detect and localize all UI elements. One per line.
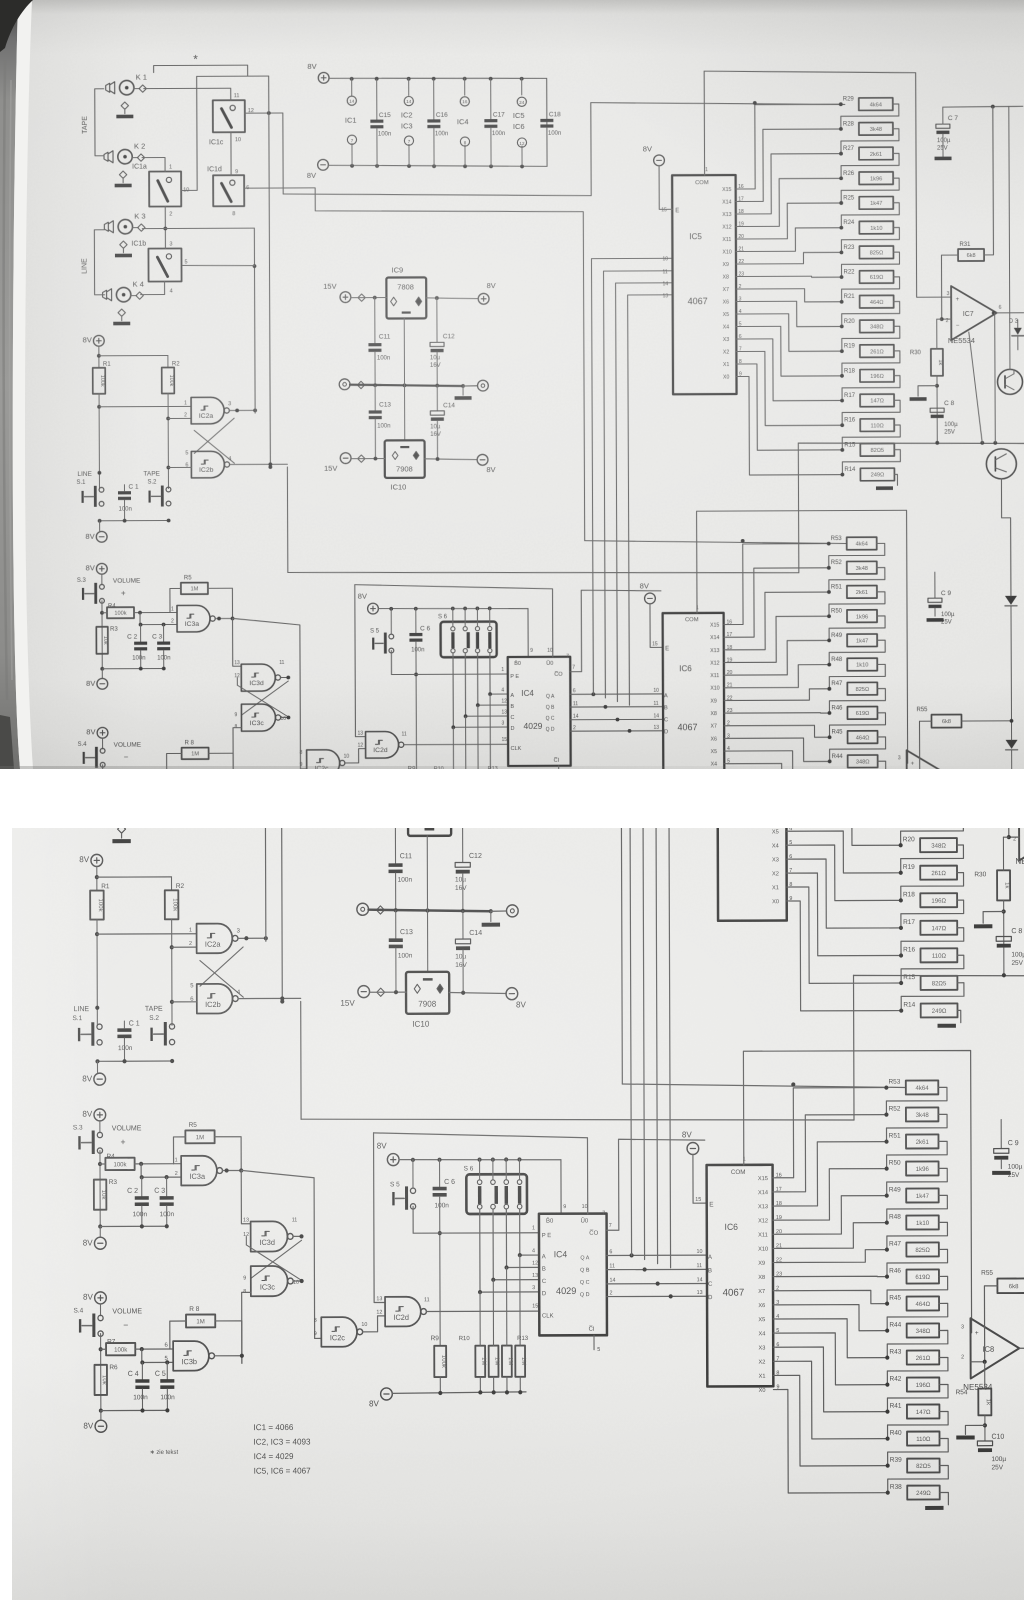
- wire IC5 X10 to ladder row R24: [738, 228, 841, 252]
- capacitor C17: [490, 79, 492, 119]
- wire S6 to IC4 A: [490, 653, 508, 694]
- select bus QD vertical to IC5: [628, 295, 675, 705]
- wire IC5 X6 to ladder row R20: [739, 301, 842, 327]
- capacitor C5: [163, 791, 165, 806]
- counter IC4 4029: [539, 1214, 607, 1336]
- wire IC4 QA to IC6: [570, 693, 663, 695]
- wire R2 down / TAPE node: [171, 919, 173, 1025]
- wire IC5 X12 to ladder row R26: [789, 680, 901, 734]
- wire to IC2a pin2: [172, 946, 197, 948]
- IC4 CI stub: [558, 766, 560, 779]
- capacitor C12: [462, 813, 464, 862]
- wire R55 to diodes: [961, 720, 1011, 722]
- opamp IC8 NE5534: [970, 1318, 1019, 1378]
- select bus QB vertical to IC5: [643, 783, 719, 1260]
- ladder resistor R26 1k96: [898, 678, 902, 682]
- capacitor C2: [140, 625, 142, 642]
- book gutter dark band: [0, 0, 46, 769]
- rail counter block: [378, 608, 528, 609]
- NAND gate IC2c: [307, 750, 340, 777]
- ladder resistor R19 261Ω: [840, 349, 844, 353]
- capacitor C12: [436, 298, 438, 342]
- ground at zero rail: [462, 386, 464, 395]
- capacitor C8: [930, 408, 944, 412]
- ladder resistor R24 1k10: [839, 226, 843, 230]
- wire K4 to IC1b: [142, 794, 168, 809]
- wire IC5 X9 to ladder row R23: [789, 763, 900, 776]
- terminal 8V+ volume down: [95, 1292, 107, 1304]
- wire S.3 down: [101, 601, 103, 669]
- IC supply pin circles 14/7: [370, 568, 372, 587]
- ladder resistor R47 825Ω: [885, 1247, 889, 1251]
- wire S6 to IC4 B: [478, 653, 508, 706]
- ladder resistor R52 3k48: [827, 566, 831, 570]
- wire IC5 X1 to ladder row R15: [789, 887, 901, 984]
- distribution left vertical: [286, 467, 288, 572]
- capacitor C13: [395, 911, 397, 939]
- opamp supply diagonal: [969, 332, 982, 443]
- wire bracket to bus: [258, 564, 281, 566]
- wire IC9 out to 8V+: [451, 813, 507, 814]
- wire IC3c pin8 from IC3b: [233, 728, 242, 792]
- wire IC6 X1 to ladder row R39: [727, 801, 830, 883]
- terminal 8V+ counter block: [368, 603, 379, 614]
- wire IC5 X5 to ladder row R19: [739, 314, 842, 352]
- ladder resistor R25 1k47: [898, 705, 902, 709]
- NAND gate IC3d: [251, 1221, 288, 1251]
- analog switch IC1a: [151, 672, 186, 711]
- capacitor C2: [141, 1177, 143, 1196]
- NAND gate IC2a: [197, 924, 233, 954]
- rail to distribution line: [853, 975, 856, 1120]
- connector K 1: [119, 80, 133, 94]
- FET Q2: [986, 449, 1016, 479]
- wire IC1a pin10 up: [181, 76, 248, 190]
- wire IC4 QB to IC6: [570, 706, 663, 708]
- ladder resistor R23 825Ω: [898, 760, 902, 764]
- wire IC6 X5 to ladder row R43: [727, 751, 830, 786]
- pulldown rail: [392, 1392, 526, 1394]
- terminal 8V+ volume up: [94, 1109, 106, 1121]
- wire R1 down / LINE node: [98, 394, 100, 489]
- zero volt rail: [339, 379, 350, 390]
- wire IC5 X14 to ladder row R28: [738, 129, 841, 202]
- ladder resistor R14 249Ω: [899, 1008, 903, 1012]
- NAND gate IC3a: [181, 1156, 217, 1186]
- wire rail corner to IC4 pin9: [560, 1160, 562, 1214]
- wire IC5 X15 to ladder row R29: [788, 597, 900, 691]
- IC supply pin circles 24/12: [554, 568, 556, 587]
- wire S.4 down: [100, 1334, 102, 1411]
- capacitor C17: [520, 569, 522, 614]
- wire IC1a to IC1b: [168, 711, 170, 758]
- ladder resistor R29 4k64: [898, 595, 902, 599]
- ladder resistor R38 249Ω: [886, 1491, 890, 1495]
- select bus QA vertical to IC5: [630, 769, 719, 1255]
- wire IC4 QC to IC6: [607, 1282, 707, 1284]
- ladder resistor R49 1k47: [885, 1193, 889, 1197]
- wire IC5 X8 to ladder row R22: [789, 789, 900, 791]
- diode D4: [1005, 596, 1017, 605]
- opamp IC7 NE5534: [951, 286, 997, 340]
- ladder resistor R22 619Ω: [840, 275, 844, 279]
- capacitor C9: [934, 572, 936, 598]
- bottom rail volume up to 8V-: [100, 1225, 167, 1227]
- C7 ground: [1001, 656, 1019, 660]
- IC supply pin circles 16/8: [464, 78, 466, 95]
- ladder resistor R27 2k61: [839, 152, 843, 156]
- IC4 CI stub: [593, 1335, 595, 1350]
- wire IC6 X6 to ladder row R44: [776, 1304, 887, 1331]
- capacitor C1: [117, 1028, 131, 1032]
- wire IC5 X10 to ladder row R24: [789, 735, 901, 761]
- connector K 2: [117, 647, 133, 663]
- terminal 15V+: [358, 806, 370, 818]
- wire IC2d out to IC4 CLK: [404, 743, 508, 745]
- ladder resistor R28 3k48: [898, 623, 902, 627]
- multiplexer IC6 4067: [707, 1165, 774, 1387]
- supply rail 8V+ decoupling: [318, 72, 329, 83]
- wire R31 to inverting input: [941, 255, 958, 319]
- wire IC5 X11 to ladder row R25: [789, 707, 901, 747]
- wire IC6 X14 to ladder row R52: [776, 1115, 887, 1192]
- wire IC2c out to IC2d: [363, 1316, 386, 1332]
- white gap between photos: [0, 769, 1024, 828]
- wire IC1b pin5: [182, 264, 254, 267]
- ladder resistor R22 619Ω: [898, 788, 902, 792]
- wire IC1c pin12: [245, 112, 283, 114]
- resistor R10 1M: [449, 775, 458, 803]
- wire IC5 X5 to ladder row R19: [789, 831, 901, 873]
- wire IC6 X4 to ladder row R42: [776, 1333, 887, 1385]
- analog switch IC1c: [220, 592, 255, 628]
- wire IC6 X12 to ladder row R50: [776, 1169, 887, 1221]
- capacitor C3: [166, 1177, 168, 1196]
- ladder 2 termination ground: [940, 1492, 949, 1504]
- wire IC6 X10 to ladder row R48: [776, 1223, 887, 1249]
- wire R31 to output node: [983, 107, 993, 255]
- supply rail lower right: [854, 975, 1024, 977]
- R30 to ground and C8: [936, 376, 938, 443]
- ladder resistor R28 3k48: [839, 127, 843, 131]
- distribution line: [288, 570, 799, 575]
- opamp output: [997, 312, 1024, 314]
- wire IC1b pin5: [187, 775, 265, 778]
- terminal 8V- enable IC6: [645, 593, 656, 604]
- capacitor C1: [118, 491, 131, 494]
- wire to IC3d pin13: [241, 1170, 250, 1223]
- terminal 8V+ volume up: [96, 563, 107, 574]
- wire K3: [142, 227, 254, 229]
- wire IC4 QB to IC6: [607, 1268, 707, 1270]
- capacitor C16: [458, 569, 460, 614]
- wire to IC3b pin5 with C4 C5: [142, 1349, 173, 1363]
- wire IC6 X11 to ladder row R49: [727, 640, 830, 675]
- wire audio L2 from IC1d to ladder 2: [254, 689, 622, 1085]
- wire IC4 CO: [606, 1139, 705, 1230]
- wire IC5 X4 to ladder row R18: [789, 845, 901, 901]
- ladder resistor R21 464Ω: [898, 816, 902, 820]
- wire IC3a out down to IC2c: [233, 618, 307, 769]
- R54 ground and C10: [919, 837, 921, 860]
- supply rail 8V- decoupling: [334, 658, 346, 670]
- terminal 8V+ counter block: [387, 1154, 399, 1166]
- ladder 1 termination ground: [957, 1010, 960, 1022]
- ladder resistor R25 1k47: [839, 201, 843, 205]
- wire rail corner to IC4 pin9: [527, 609, 529, 657]
- ladder resistor R48 1k10: [885, 1220, 889, 1224]
- terminal 8V+ volume down: [97, 727, 108, 738]
- wire IC4 QD to IC6: [571, 730, 664, 732]
- ladder resistor R53 4k64: [827, 542, 831, 546]
- wire IC6 X14 to ladder row R52: [726, 568, 829, 637]
- ladder resistor R43 261Ω: [828, 784, 832, 788]
- wire IC6 X8 to ladder row R46: [727, 712, 830, 715]
- wire IC6 X0 to ladder row R38: [777, 1389, 888, 1493]
- opamp IC7 NE5534: [1019, 800, 1024, 860]
- wire IC4 QD to IC6: [607, 1295, 707, 1297]
- distribution left vertical: [300, 1001, 302, 1119]
- wire IC4 B0 up: [374, 1132, 588, 1214]
- wire S6 to IC4 D: [453, 653, 508, 728]
- wire IC5 X2 to ladder row R16: [789, 873, 901, 956]
- NAND gate IC2d: [366, 731, 399, 758]
- wire IC6 X11 to ladder row R49: [776, 1196, 887, 1235]
- LINE group bracket: [94, 230, 104, 295]
- wire IC6 X3 to ladder row R41: [776, 1347, 887, 1412]
- ladder resistor R46 619Ω: [885, 1274, 889, 1278]
- rail counter block: [399, 1159, 561, 1160]
- wire to R2: [99, 355, 168, 357]
- IC6 COM riser to output line: [743, 1050, 971, 1333]
- wire audio L2 from IC1d to ladder 2: [244, 187, 585, 542]
- select bus QA vertical to IC5: [591, 258, 674, 694]
- supply rail 8V+ decoupling: [334, 561, 346, 573]
- wire S.4 down: [102, 765, 104, 834]
- wire K4 to IC1b: [141, 282, 165, 295]
- ladder resistor R26 1k96: [839, 176, 843, 180]
- wire IC5 X9 to ladder row R23: [738, 252, 841, 264]
- capacitor C4: [140, 791, 142, 806]
- ladder resistor R20 348Ω: [899, 843, 903, 847]
- wire IC5 X3 to ladder row R17: [739, 339, 842, 401]
- audio line L1 into ladder 1: [629, 594, 904, 598]
- capacitor C9: [1000, 1120, 1002, 1149]
- ladder resistor R41 147Ω: [885, 1410, 889, 1414]
- capacitor C15: [376, 80, 378, 120]
- IC supply pin circles 14/7: [408, 78, 410, 95]
- COM line to opamp IC7: [752, 559, 1019, 813]
- opamp IC8 NE5534: [907, 750, 952, 804]
- opamp IC8 output: [952, 776, 1014, 778]
- pulldown rail: [372, 817, 496, 819]
- connector K 3: [118, 725, 134, 741]
- wire IC6 X7 to ladder row R45: [776, 1290, 887, 1304]
- wire IC6 X9 to ladder row R47: [776, 1250, 887, 1263]
- NAND gate IC3b: [173, 1341, 209, 1371]
- latch cross coupling: [194, 418, 234, 453]
- wire R2 down / TAPE node: [167, 394, 169, 489]
- ladder resistor R15 82Ω5: [840, 448, 844, 452]
- distribution line: [301, 1117, 854, 1122]
- capacitor C14: [436, 386, 438, 411]
- ladder 2 termination ground: [878, 906, 886, 917]
- wire IC6 X10 to ladder row R48: [727, 665, 830, 688]
- capacitor C18: [581, 569, 583, 614]
- capacitor C16: [433, 79, 435, 119]
- analog switch IC1b: [151, 757, 187, 794]
- bottom rail S1/S2 to 8V-: [97, 1060, 172, 1062]
- IC9 ground pin wire: [426, 836, 428, 911]
- multiplexer IC5 4067: [717, 676, 787, 921]
- feedback line top: [1010, 599, 1024, 602]
- push switch S.3: [99, 584, 104, 589]
- ladder resistor R42 196Ω: [885, 1383, 889, 1387]
- connector K 2: [118, 149, 132, 163]
- select bus QD vertical to IC5: [669, 810, 719, 1268]
- latch cross coupling: [200, 947, 243, 986]
- ladder resistor R52 3k48: [884, 1112, 888, 1116]
- vertical bus from bracket: [281, 565, 283, 1001]
- IC6 COM riser to output line: [697, 510, 908, 764]
- latch cross coupling IC3d/IC3c: [241, 681, 288, 715]
- wire IC5 X13 to ladder row R27: [738, 154, 841, 214]
- wire IC5 X1 to ladder row R15: [739, 364, 842, 451]
- wire IC6 X12 to ladder row R50: [727, 616, 830, 662]
- wire IC4 CO: [570, 590, 661, 672]
- terminal 8V- enable IC5: [654, 155, 665, 166]
- NAND gate IC3b: [170, 771, 203, 798]
- ladder resistor R15 82Ω5: [899, 981, 903, 985]
- wire IC5 X7 to ladder row R21: [739, 289, 842, 303]
- capacitor C3: [163, 625, 165, 642]
- mechanical link bracket with asterisk: [156, 553, 258, 566]
- ladder resistor R18 196Ω: [899, 898, 903, 902]
- supply rail lower right: [798, 442, 1024, 444]
- ladder resistor R16 110Ω: [899, 953, 903, 957]
- NAND gate IC3a: [177, 605, 210, 632]
- IC10 ground pin wire: [427, 911, 429, 972]
- wire IC4 QC to IC6: [570, 718, 663, 720]
- wire K3: [144, 734, 265, 736]
- push switch S.4: [98, 1315, 103, 1320]
- wire C6 down to R9: [439, 1197, 442, 1346]
- wire IC1a to IC1b: [164, 207, 166, 249]
- ladder resistor R20 348Ω: [840, 325, 844, 329]
- wire to IC3d pin13: [233, 618, 242, 666]
- capacitor C6: [415, 608, 417, 632]
- IC supply pin circles 24/12: [521, 78, 523, 95]
- audio line L2 into ladder 2: [585, 540, 847, 545]
- wire IC6 X5 to ladder row R43: [776, 1319, 887, 1358]
- wire to IC3a pin2 with C2 C3: [140, 612, 177, 624]
- connector K 1: [119, 570, 135, 586]
- wire IC1c pin12: [255, 605, 296, 607]
- ladder resistor R24 1k10: [898, 733, 902, 737]
- capacitor C4: [141, 1362, 143, 1379]
- wire IC2d pin13: [355, 585, 366, 737]
- COM line to opamp IC7: [704, 70, 951, 298]
- capacitor C6: [439, 1159, 441, 1186]
- wire R31 to inverting input: [1009, 766, 1024, 837]
- ladder resistor R39 82Ω5: [886, 1464, 890, 1468]
- wire IC6 X13 to ladder row R51: [776, 1142, 887, 1206]
- feedback line top: [943, 105, 1023, 108]
- bottom rail volume up to 8V-: [102, 668, 163, 670]
- select bus QC vertical to IC5: [616, 283, 675, 702]
- wire IC6 X7 to ladder row R45: [727, 725, 830, 737]
- wire R1 down / LINE node: [96, 920, 98, 1026]
- wire IC6 X2 to ladder row R40: [727, 789, 830, 859]
- capacitor C10: [977, 1441, 992, 1446]
- NAND gate IC2a: [191, 397, 224, 424]
- wire IC4 QA to IC6: [607, 1254, 707, 1256]
- NAND gate IC3c: [241, 704, 275, 731]
- rail to distribution line: [797, 443, 800, 573]
- wire IC5 X7 to ladder row R21: [789, 803, 900, 818]
- opamp output down to rail: [994, 313, 997, 443]
- C7 ground: [935, 157, 952, 161]
- resistor R11 1M: [489, 1346, 499, 1377]
- capacitor C13: [374, 386, 376, 411]
- ladder resistor R17 147Ω: [840, 399, 844, 403]
- wire to IC2a pin2: [168, 417, 191, 419]
- connector K 4: [116, 287, 130, 301]
- ladder resistor R50 1k96: [827, 614, 831, 618]
- ladder resistor R50 1k96: [885, 1166, 889, 1170]
- control bus from IC2a out: [264, 735, 267, 941]
- supply rail 8V- decoupling: [318, 159, 329, 170]
- terminal 15V+: [340, 292, 351, 303]
- wire S.3 down: [99, 1151, 101, 1227]
- wire IC2d pin13: [374, 1133, 386, 1303]
- ladder resistor R21 464Ω: [840, 300, 844, 304]
- terminal 8V- counter block: [381, 1388, 393, 1400]
- wire IC5 X4 to ladder row R18: [739, 326, 842, 376]
- analog switch IC1b: [148, 248, 181, 281]
- ladder resistor R29 4k64: [839, 102, 843, 106]
- wire IC1c pin10 to IC1d pin9: [239, 628, 241, 676]
- wire S6 to IC4 A: [520, 1209, 539, 1255]
- wire IC6 X8 to ladder row R46: [776, 1275, 887, 1278]
- ladder resistor R42 196Ω: [828, 808, 832, 812]
- ladder resistor R38 249Ω: [828, 905, 832, 909]
- wire audio L1 from switches to ladder 1: [295, 606, 297, 696]
- wire C6 down to R9: [415, 642, 418, 776]
- wire to IC2b pin6: [168, 466, 191, 468]
- terminal 15V-: [340, 453, 351, 464]
- vertical bus from bracket: [269, 76, 271, 467]
- NAND gate IC3d: [241, 664, 275, 691]
- ladder resistor R47 825Ω: [827, 687, 831, 691]
- connector K 4: [116, 801, 132, 817]
- wire IC10 out to 8V-: [449, 992, 506, 993]
- capacitor C11: [394, 813, 396, 864]
- wire IC6 X2 to ladder row R40: [776, 1361, 887, 1439]
- multiplexer IC6 4067: [663, 613, 725, 812]
- wire IC6 X4 to ladder row R42: [727, 763, 830, 810]
- opamp IC8 output: [1019, 1347, 1024, 1349]
- ladder resistor R53 4k64: [884, 1085, 888, 1089]
- wire IC6 X6 to ladder row R44: [727, 738, 830, 762]
- top photo panel: [0, 0, 1024, 769]
- wire IC5 X8 to ladder row R22: [739, 276, 842, 277]
- wire IC1c pin10 to IC1d pin9: [230, 132, 232, 175]
- wire IC2c out to IC2d: [345, 749, 366, 763]
- wire S.5 to IC4 PE: [391, 650, 507, 675]
- ladder resistor R51 2k61: [827, 590, 831, 594]
- wire to IC2a pin1: [99, 405, 191, 407]
